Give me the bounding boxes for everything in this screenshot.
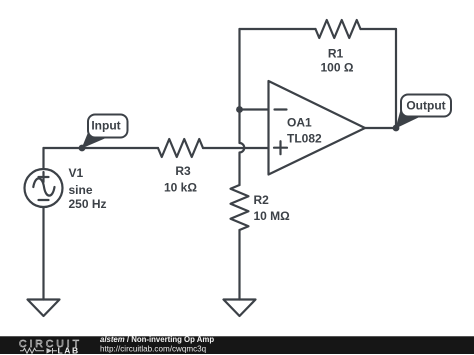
label R1 value xyxy=(321,47,354,75)
svg-text:OA1: OA1 xyxy=(287,116,312,130)
svg-text:R2: R2 xyxy=(254,193,270,207)
svg-text:http://circuitlab.com/cwqmc3q: http://circuitlab.com/cwqmc3q xyxy=(100,345,206,354)
svg-text:LAB: LAB xyxy=(58,346,80,355)
CircuitLab logo wordmark xyxy=(19,338,82,355)
wire: V1 bottom lead to ground xyxy=(42,207,44,300)
svg-text:250 Hz: 250 Hz xyxy=(69,197,107,211)
svg-text:alstem / Non-inverting Op Amp: alstem / Non-inverting Op Amp xyxy=(100,335,214,344)
op-amp OA1 xyxy=(269,81,366,175)
svg-text:Output: Output xyxy=(406,99,445,113)
wire: R2 bottom lead to ground xyxy=(238,230,240,300)
svg-text:10 MΩ: 10 MΩ xyxy=(254,209,291,223)
wire: inverting input lead xyxy=(240,108,269,110)
footer bar xyxy=(0,336,474,354)
wire: right feedback vertical xyxy=(395,29,397,128)
wire: op-amp output lead xyxy=(365,127,396,129)
resistor R2 xyxy=(231,185,249,230)
net flag Input xyxy=(82,115,128,149)
wire: top feedback horizontal xyxy=(240,28,397,30)
svg-text:Input: Input xyxy=(91,119,120,133)
resistor R3 xyxy=(158,139,203,157)
wire: left feedback vertical with hop over input wire xyxy=(240,29,245,185)
node: inverting input junction dot xyxy=(236,106,243,113)
svg-text:10 kΩ: 10 kΩ xyxy=(164,181,197,195)
svg-text:TL082: TL082 xyxy=(287,132,322,146)
label V1 value xyxy=(69,166,107,211)
wire: main horizontal net from V1 to op-amp + input xyxy=(44,147,269,149)
label R3 value xyxy=(164,164,197,195)
node Input junction dot xyxy=(79,145,86,152)
ground (V1) xyxy=(28,300,60,317)
node Output junction dot xyxy=(393,125,400,132)
ground (R2) xyxy=(224,300,256,317)
svg-text:100 Ω: 100 Ω xyxy=(321,61,354,75)
logo resistor squiggle xyxy=(20,348,44,353)
resistor R1 xyxy=(316,20,361,38)
logo diode xyxy=(47,348,53,354)
label R2 value xyxy=(254,193,291,223)
svg-text:V1: V1 xyxy=(69,166,84,180)
net flag Output xyxy=(396,95,452,129)
wire: V1 top lead vertical xyxy=(42,148,44,169)
voltage source V1 xyxy=(25,169,63,207)
svg-text:sine: sine xyxy=(69,183,93,197)
svg-text:R3: R3 xyxy=(175,164,191,178)
svg-text:R1: R1 xyxy=(328,47,344,61)
